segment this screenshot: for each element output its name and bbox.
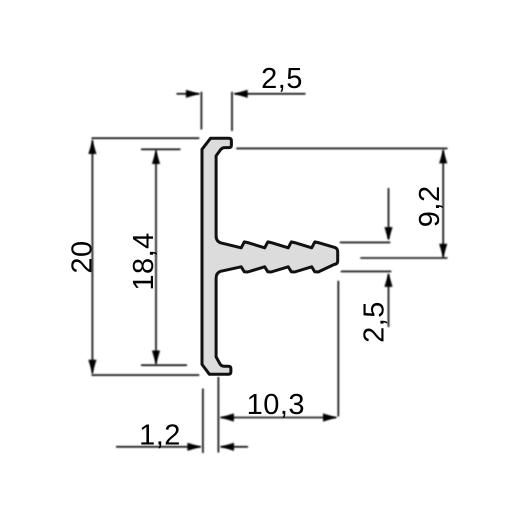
svg-text:2,5: 2,5 [359,301,391,343]
arrow right 10,3 [323,413,337,421]
svg-text:10,3: 10,3 [247,389,305,421]
svg-text:20: 20 [66,240,98,273]
extension line bottom [341,270,392,272]
svg-text:2,5: 2,5 [261,63,303,95]
dimension tail left [116,446,201,448]
dimension 2,5 (right, leg thickness) [340,188,392,327]
arrow down 18,4 [152,351,160,365]
dimension line [155,151,157,365]
extension line top [141,148,181,150]
arrow up 20 [88,141,96,155]
extension line top [340,241,391,243]
dimension line [442,150,444,257]
dimension 20 (left overall height) [92,138,200,375]
arrow up 18,4 [152,151,160,165]
arrow right 1,2 [187,443,201,451]
arrow up 9,2 [439,150,447,164]
arrow down 20 [88,360,96,374]
extension line top [236,147,447,149]
profile cross-section (T-bar with barbed leg) [202,138,338,374]
dimension 2,5 (top lip width) [177,92,306,131]
dimension 9,2 (right, lip bottom to leg axis) [236,148,447,258]
dimension tail lower [388,274,390,327]
arrow up 2,5right [384,273,392,287]
arrow down 9,2 [439,244,447,258]
dimension tail left [177,93,200,95]
dimension 10,3 (leg length) [218,281,338,453]
extension line left [200,92,202,130]
dimension line [91,140,93,374]
svg-text:18,4: 18,4 [128,232,160,290]
extension line left [202,389,204,454]
dimension 18,4 (inner height) [141,149,187,365]
extension line left [217,377,219,453]
dimension tail right [221,446,249,448]
extension line bottom [360,257,447,259]
extension line right [231,92,233,131]
arrow right 2,5top [186,90,200,98]
svg-text:1,2: 1,2 [139,419,181,451]
dimension tail right [234,93,305,95]
svg-text:9,2: 9,2 [414,185,446,227]
arrow down 2,5right [384,227,392,241]
dimension line [220,417,336,419]
extension line top [92,137,200,139]
arrow left 1,2 [221,443,235,451]
dimension tail upper [388,188,390,239]
extension line bottom [92,374,200,376]
dimension 1,2 (bar wall thickness) [116,389,248,454]
arrow left 2,5top [234,90,248,98]
extension line bottom [141,364,187,366]
extension line right [337,281,339,417]
arrow left 10,3 [220,413,234,421]
